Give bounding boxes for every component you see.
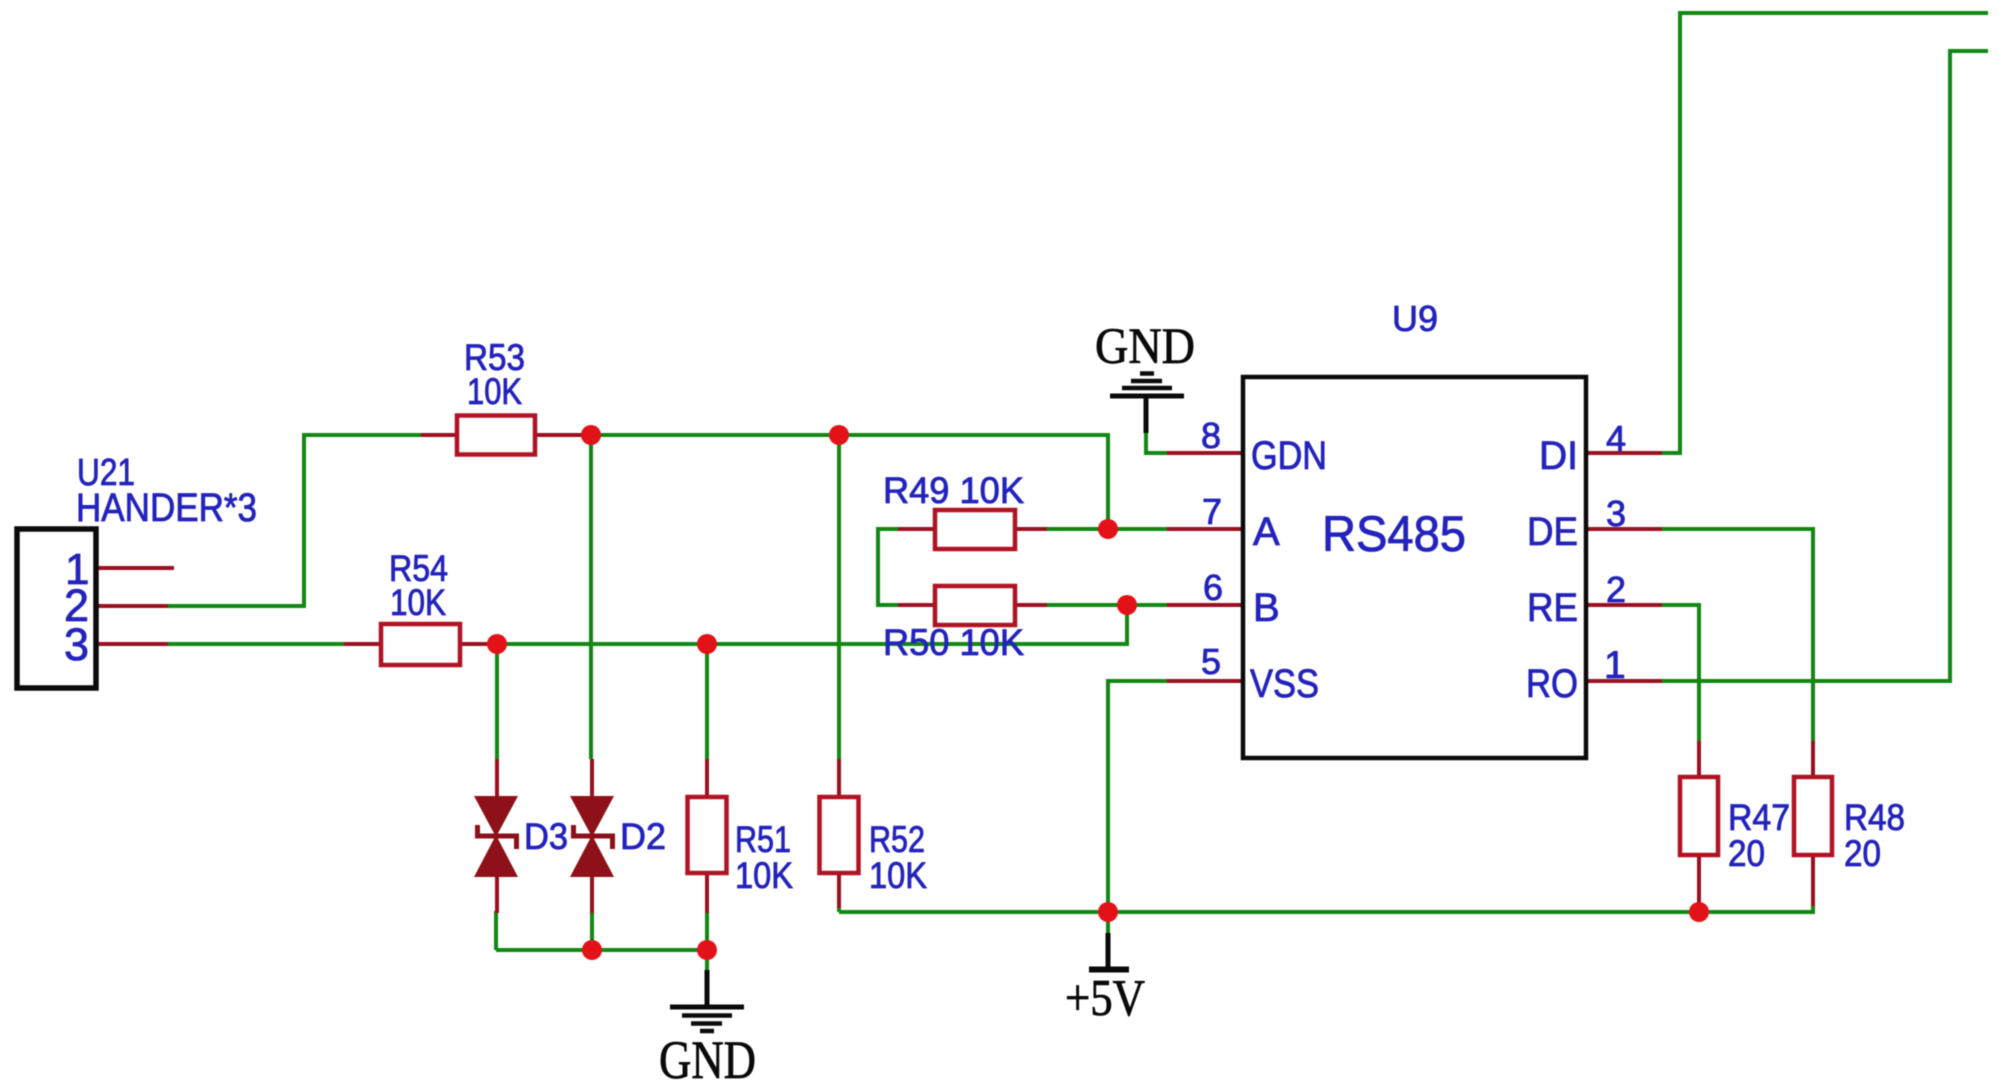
wire R48 bottom to rail: [1811, 904, 1815, 912]
resistor R50 body: [935, 586, 1015, 625]
svg-text:6: 6: [1203, 567, 1223, 608]
svg-text:1: 1: [1604, 644, 1626, 687]
wire DE net to R48: [1662, 529, 1813, 741]
U9 pin 1 stub: [1586, 679, 1662, 683]
resistor R48 leads: [1811, 741, 1815, 777]
wire GND2 stub below rail: [705, 950, 709, 972]
junction node +5V: [1098, 902, 1118, 922]
wire +5V rail: [839, 910, 1815, 914]
resistor R47 leads: [1697, 741, 1701, 777]
wire VSS pin5 elbow down to +5V rail: [1108, 681, 1167, 912]
wire R53 output across top to pin7 column: [583, 435, 1108, 529]
resistor R50 leads: [898, 603, 935, 607]
diode D2 (bidirectional TVS): [570, 796, 614, 877]
svg-text:7: 7: [1202, 491, 1222, 532]
U9 pin 2 stub: [1586, 603, 1662, 607]
wire R51 bottom to rail: [705, 911, 709, 950]
svg-text:8: 8: [1201, 415, 1221, 456]
wire R54 output across to pin6 column: [505, 605, 1127, 644]
wire U loop joining R49 and R50 left ends: [878, 529, 898, 605]
svg-text:RS485: RS485: [1322, 506, 1466, 562]
svg-text:B: B: [1253, 586, 1280, 630]
wire D3 bottom to rail: [494, 911, 498, 950]
svg-text:R50 10K: R50 10K: [883, 622, 1024, 663]
connector U21 body: [17, 529, 96, 688]
resistor R52 body: [820, 797, 859, 873]
resistor R54 body: [381, 624, 460, 665]
wire D2 bottom to rail: [590, 911, 594, 950]
svg-text:RE: RE: [1527, 586, 1578, 630]
diode D3 (bidirectional TVS): [474, 796, 518, 877]
svg-text:3: 3: [64, 619, 89, 670]
U9 pin 7 stub: [1167, 527, 1243, 531]
junction node pin 6 B: [1117, 595, 1137, 615]
svg-text:R47: R47: [1728, 797, 1790, 838]
connector pin 1 stub: [96, 566, 174, 570]
resistor R54 leads: [344, 642, 381, 646]
svg-text:DE: DE: [1527, 510, 1578, 554]
wire RO net to top right: [1662, 51, 1988, 681]
junction node R53 output: [581, 425, 601, 445]
svg-text:R52: R52: [869, 819, 925, 860]
svg-text:GND: GND: [1095, 319, 1195, 375]
svg-text:2: 2: [1606, 569, 1626, 610]
svg-text:3: 3: [1606, 493, 1626, 534]
svg-text:R49 10K: R49 10K: [883, 470, 1024, 511]
U9 pin 6 stub: [1167, 603, 1243, 607]
wire node R54out down to D3: [495, 644, 499, 759]
junction node R54 output: [487, 634, 507, 654]
wire node to R51: [705, 644, 709, 759]
diode D2 top lead: [590, 759, 594, 798]
resistor R48 body: [1794, 777, 1832, 855]
wire R49 output to pin7 junction: [1047, 527, 1167, 531]
junction node R51 top: [697, 634, 717, 654]
svg-text:4: 4: [1606, 418, 1626, 459]
svg-text:U9: U9: [1392, 298, 1438, 339]
resistor R52 leads: [837, 759, 841, 797]
wire GND stem to pin8: [1146, 431, 1167, 453]
svg-text:DI: DI: [1539, 434, 1578, 478]
svg-text:HANDER*3: HANDER*3: [76, 486, 257, 530]
svg-text:+5V: +5V: [1065, 970, 1145, 1027]
svg-text:10K: 10K: [869, 855, 927, 896]
diode D3 bottom lead: [495, 875, 499, 913]
wire +5V symbol stub: [1106, 912, 1110, 934]
svg-text:D3: D3: [524, 816, 568, 857]
svg-text:GDN: GDN: [1251, 434, 1327, 478]
junction node R47 bottom: [1689, 902, 1709, 922]
resistor R49 body: [935, 510, 1015, 549]
U9 pin 5 stub: [1167, 679, 1243, 683]
svg-text:R48: R48: [1844, 797, 1905, 838]
svg-text:10K: 10K: [390, 582, 446, 623]
U9 pin 4 stub: [1586, 451, 1662, 455]
svg-text:10K: 10K: [467, 371, 522, 412]
diode D3 top lead: [495, 759, 499, 798]
resistor R53 body: [457, 416, 535, 455]
wire R47 bottom to rail: [1697, 904, 1701, 912]
connector pin 2 stub: [96, 604, 168, 608]
resistor R47 body: [1680, 777, 1718, 855]
wire diode bottom rail: [496, 948, 707, 952]
ground symbol bottom: [670, 970, 744, 1031]
IC U9 body: [1243, 377, 1586, 758]
resistor R49 leads: [898, 527, 935, 531]
U9 pin 3 stub: [1586, 527, 1662, 531]
diode D2 bottom lead: [590, 875, 594, 913]
resistor R51 body: [688, 797, 727, 873]
ground symbol top (near U9 pin 8): [1110, 374, 1184, 434]
wire node top to R52: [837, 435, 841, 759]
junction node D2 bottom: [582, 940, 602, 960]
svg-text:20: 20: [1844, 833, 1881, 874]
wire RE net to R47: [1662, 605, 1699, 741]
svg-text:VSS: VSS: [1250, 662, 1319, 706]
resistor R53 leads: [421, 433, 457, 437]
svg-text:RO: RO: [1526, 662, 1578, 706]
U9 pin 8 stub: [1167, 451, 1243, 455]
svg-text:5: 5: [1201, 641, 1221, 682]
connector pin 3 stub: [96, 642, 168, 646]
resistor R51 leads: [705, 759, 709, 797]
+5V power symbol: [1089, 933, 1129, 970]
svg-text:10K: 10K: [735, 855, 793, 896]
svg-text:D2: D2: [620, 816, 666, 857]
junction node R52 top: [829, 425, 849, 445]
wire node R53out down to D2: [589, 435, 593, 759]
wire net3 from connector pin3 to R54: [168, 642, 344, 646]
svg-text:GND: GND: [659, 1030, 756, 1085]
wire R52 bottom elbow to rail: [837, 906, 841, 912]
wire net2 from connector pin2 up to R53: [168, 435, 421, 606]
junction node GND2: [697, 940, 717, 960]
wire R50 output to pin6 junction: [1047, 603, 1167, 607]
svg-text:20: 20: [1728, 833, 1765, 874]
junction node pin 7 A: [1098, 519, 1118, 539]
wire DI net to top right: [1662, 13, 1988, 453]
svg-text:A: A: [1253, 510, 1280, 554]
svg-text:R51: R51: [735, 819, 791, 860]
